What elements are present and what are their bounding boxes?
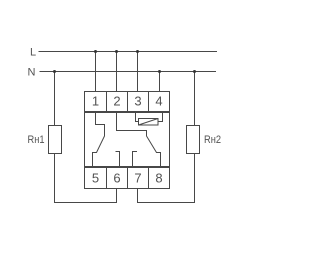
terminal separator 7|8 — [148, 168, 150, 189]
wire L to pin1 — [95, 52, 97, 92]
contact seat pin6 — [116, 152, 120, 168]
wire L line — [39, 51, 218, 53]
terminal separator 1|2 — [106, 92, 108, 112]
svg-text:N: N — [28, 67, 36, 79]
wire Rн1 to pin6 — [55, 154, 117, 203]
terminal separator 5|6 — [106, 168, 108, 189]
contact arm pin2-pin8 — [117, 113, 161, 168]
svg-text:8: 8 — [155, 171, 162, 186]
relay coil K1 left lead — [136, 113, 139, 122]
wire N to Rн1 — [54, 72, 56, 126]
wire L to pin2 — [116, 52, 118, 92]
node junction L pin1 — [94, 50, 97, 53]
wire N to Rн2 — [194, 72, 196, 126]
terminal separator 2|3 — [127, 92, 129, 112]
relay body outline — [85, 113, 170, 167]
svg-text:Rн2: Rн2 — [204, 134, 221, 146]
svg-text:Rн1: Rн1 — [28, 134, 45, 146]
svg-text:1: 1 — [92, 94, 99, 109]
svg-text:5: 5 — [92, 171, 99, 186]
relay coil K1 box — [139, 119, 159, 126]
contact arm pin1-pin5 — [93, 113, 105, 168]
terminal separator 3|4 — [148, 92, 150, 112]
wire N to pin4 — [159, 72, 161, 92]
terminal row 5-8 outline — [85, 168, 170, 189]
svg-text:2: 2 — [113, 94, 120, 109]
relay coil K1 right lead — [158, 113, 163, 122]
node junction N pin4 — [158, 70, 161, 73]
wire Rн2 to pin7 — [138, 154, 195, 203]
svg-text:7: 7 — [134, 171, 141, 186]
svg-text:6: 6 — [113, 171, 120, 186]
terminal separator 6|7 — [127, 168, 129, 189]
node junction L pin2 — [115, 50, 118, 53]
svg-text:L: L — [30, 47, 36, 59]
resistor Rн2 box — [187, 126, 200, 154]
resistor Rн1 box — [49, 126, 62, 154]
terminal row 1-4 outline — [85, 92, 170, 112]
node junction L pin3 — [136, 50, 139, 53]
relay coil K1 diagonal — [139, 119, 159, 126]
svg-text:3: 3 — [134, 94, 141, 109]
node junction N Rн2 — [193, 70, 196, 73]
wire L to pin3 — [137, 52, 139, 92]
svg-text:4: 4 — [155, 94, 162, 109]
wire N line — [40, 71, 217, 73]
contact seat pin7 — [133, 152, 138, 168]
node junction N Rн1 — [53, 70, 56, 73]
